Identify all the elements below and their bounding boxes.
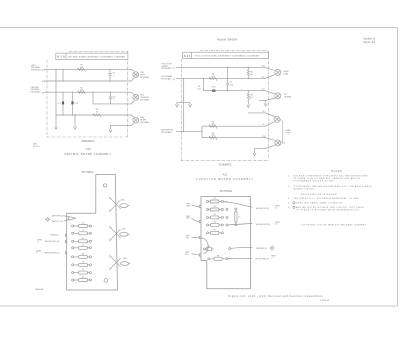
capacitor C2 electrolytic [57, 92, 64, 115]
resistor R8 [209, 133, 217, 140]
note ref text [33, 144, 40, 148]
exit wire 2 [228, 224, 252, 225]
wire to lamp F3 [249, 112, 266, 114]
svg-text:1.: 1. [288, 175, 291, 177]
wire vertical x93 [92, 92, 94, 104]
tab wire w2 [192, 218, 200, 221]
svg-text:A10: A10 [57, 55, 65, 59]
lone eyelet e3 [226, 224, 228, 226]
svg-text:(11): (11) [262, 89, 265, 91]
svg-text:WHT/VIO/GRY (7): WHT/VIO/GRY (7) [255, 259, 269, 261]
exit wire 1 [223, 202, 252, 208]
tab wire w3 [192, 236, 200, 238]
wire f2 [176, 77, 265, 79]
edge tab t1 [199, 205, 201, 207]
resistor row p2 [72, 230, 92, 235]
svg-text:COPYRIGHT 1971 BY HEWLETT-PACK: COPYRIGHT 1971 BY HEWLETT-PACKARD COMPAN… [301, 223, 367, 226]
svg-text:(2): (2) [173, 68, 176, 70]
input label CENTER DECIMAL [31, 87, 45, 95]
resistor row p1 [72, 223, 92, 228]
loop vertical [201, 126, 203, 138]
lamp assembly DS3 [109, 255, 130, 269]
svg-text:C1: C1 [238, 216, 240, 218]
resistor row p5 [72, 254, 92, 259]
svg-text:FROM A12: FROM A12 [31, 90, 42, 93]
page top border [0, 27, 398, 29]
resistor row p7 [72, 269, 92, 274]
term 16 stack [36, 250, 41, 254]
wire w6 [111, 124, 132, 126]
svg-text:Figure 4-6. (A10 - A11) Decim: Figure 4-6. (A10 - A11) Decimal and Func… [229, 294, 324, 298]
svg-text:5.: 5. [288, 207, 291, 209]
bus wire left [55, 69, 57, 122]
term 15 stack [37, 240, 42, 244]
svg-text:DS2: DS2 [122, 229, 126, 231]
svg-text:DS3: DS3 [123, 258, 127, 260]
capacitor C1 vertical [235, 208, 241, 226]
lone eyelet e1 [226, 209, 228, 211]
edge tab 3 [65, 252, 67, 254]
page bottom border [0, 305, 398, 307]
svg-text:WHT/VIO (4): WHT/VIO (4) [52, 221, 63, 223]
ground below lamp F2 [264, 100, 267, 106]
svg-text:(TERM 15): (TERM 15) [50, 235, 59, 237]
svg-text:FUNCTION BOARD ASSEMBLY SCHEMA: FUNCTION BOARD ASSEMBLY SCHEMATIC DIAGRA… [195, 55, 259, 58]
svg-text:WHT/BLK/VIO (4): WHT/BLK/VIO (4) [256, 208, 270, 210]
junction dots A11 [183, 67, 249, 132]
svg-text:4-15/4-16: 4-15/4-16 [320, 300, 330, 302]
tab label 1 [186, 204, 191, 208]
lamp F2 [259, 91, 292, 101]
page right border [397, 28, 399, 307]
wire f3 [203, 90, 265, 92]
svg-text:(4): (4) [42, 93, 45, 95]
resistor R2 [78, 87, 86, 94]
svg-text:WHT/: WHT/ [185, 252, 190, 254]
exit wire 4 [228, 258, 252, 260]
lamp F4 return wire [255, 148, 266, 153]
wire w3 [44, 91, 132, 93]
edge tab 2 [65, 240, 67, 242]
svg-text:(13): (13) [262, 66, 265, 68]
capacitor C3 electrolytic [71, 92, 78, 115]
lamp assembly DS2 [109, 227, 129, 241]
connector flag [64, 216, 76, 221]
lamp DS2 [132, 92, 150, 104]
wire vertical x63 [62, 69, 64, 81]
internal bus wire [183, 78, 185, 131]
term label 4 [271, 256, 276, 260]
lamp F3 [266, 113, 280, 126]
svg-text:R7: R7 [214, 230, 216, 232]
tab label 4 [185, 252, 190, 256]
A11 board outline [201, 197, 250, 289]
lamp test bracket [280, 120, 292, 143]
svg-text:R8: R8 [217, 255, 219, 257]
svg-text:R6: R6 [214, 222, 216, 224]
resistor row q3 [207, 214, 224, 219]
tab label 3 [186, 236, 191, 240]
A10 board outline [67, 175, 118, 291]
bottom row resistor [208, 255, 228, 260]
svg-text:DECIMAL BOARD ASSEMBLY: DECIMAL BOARD ASSEMBLY [65, 152, 112, 156]
svg-text:R3: R3 [214, 206, 216, 208]
svg-text:BOARD LISTED: BOARD LISTED [294, 188, 315, 191]
svg-text:FROM A1A: FROM A1A [161, 131, 172, 134]
mounting hole top [103, 184, 106, 187]
resistor R3 [93, 109, 101, 117]
pin labels A11 [262, 66, 266, 138]
resistor row p8 [72, 277, 92, 282]
svg-text:C4: C4 [82, 269, 84, 271]
resistor row q4 [207, 222, 224, 227]
A10 enclosure dashed border [47, 51, 128, 137]
term label 2 [275, 222, 280, 226]
resistor row q1 [207, 198, 229, 203]
wire w2 [44, 80, 132, 82]
resistor R6 vertical [247, 91, 254, 103]
svg-text:NOTES: NOTES [331, 170, 342, 173]
svg-text:TEST: TEST [285, 132, 291, 134]
svg-text:WHT/: WHT/ [186, 216, 191, 218]
resistor row p3 [72, 238, 92, 243]
A11 enclosure dashed border [181, 51, 269, 161]
input label NO SIGNAL [161, 75, 175, 81]
resistor R5 label [197, 86, 201, 90]
svg-text:R5: R5 [214, 214, 216, 216]
svg-text:R1: R1 [82, 223, 84, 225]
tab arc inside board [202, 238, 209, 254]
svg-text:TERM: TERM [275, 206, 280, 208]
svg-text:TO PLACE IN A BOARD WITH REVER: TO PLACE IN A BOARD WITH REVERSE ALIGN [296, 209, 359, 212]
resistor R1 [78, 65, 86, 72]
junction dots A10 [55, 69, 111, 126]
svg-text:(10): (10) [263, 136, 266, 138]
lamp DS3 [132, 115, 150, 125]
svg-text:LOAD: LOAD [283, 73, 289, 76]
ground below lamp F4 [253, 153, 256, 156]
A10 title box [56, 53, 128, 59]
lamp F1 [265, 67, 289, 78]
edge tab t4 [199, 254, 201, 256]
svg-text:WHT/GRN (2): WHT/GRN (2) [52, 216, 64, 218]
svg-text:DENOTES PANEL LAMP LOCATION: DENOTES PANEL LAMP LOCATION [296, 201, 343, 204]
A11 title box [183, 52, 269, 58]
capacitor C4 [109, 92, 116, 104]
svg-text:5808-B-2B: 5808-B-2B [35, 289, 44, 291]
svg-text:WHT/BLK/GRN (5): WHT/BLK/GRN (5) [44, 253, 60, 255]
note 5 glyph [293, 206, 295, 208]
mounting hole bottom [104, 279, 108, 283]
loop top branch [202, 125, 266, 127]
svg-text:WHT/: WHT/ [186, 236, 191, 238]
resistor R3 vertical [247, 67, 254, 78]
input label FUNCTION LAMP [161, 64, 175, 70]
svg-text:DECIMAL BOARD ASSEMBLY SCHEMAT: DECIMAL BOARD ASSEMBLY SCHEMATIC DIAGRAM [68, 55, 125, 58]
tab label 2 [186, 216, 191, 220]
svg-text:2.: 2. [288, 186, 291, 188]
edge tab t2 [199, 220, 201, 222]
lamp glyph right [270, 245, 275, 250]
note 4 glyph [293, 202, 295, 204]
svg-text:TERM: TERM [275, 222, 280, 224]
lamp glyph left [45, 217, 50, 222]
svg-text:A10: A10 [86, 147, 91, 151]
svg-text:WHT/: WHT/ [186, 204, 191, 206]
svg-text:17: 17 [271, 258, 273, 260]
svg-text:NOTE 3: NOTE 3 [33, 146, 40, 148]
svg-text:15: 15 [275, 207, 277, 209]
svg-text:SIGNAL: SIGNAL [284, 95, 292, 98]
wire w4 [93, 103, 132, 105]
svg-text:TERM: TERM [271, 256, 276, 258]
capacitor C1 [108, 69, 116, 81]
resistor row p6 [72, 262, 92, 267]
svg-text:Model 5808A: Model 5808A [217, 37, 237, 41]
svg-text:SCHEMATIC: SCHEMATIC [81, 140, 95, 143]
resistor row q2 [207, 206, 224, 211]
input label LEFT DECIMAL [31, 65, 45, 72]
lamp test loop input wire [176, 130, 202, 132]
svg-text:C1: C1 [82, 230, 84, 232]
svg-text:DECIMAL: DECIMAL [140, 76, 150, 79]
wire f1 [176, 66, 265, 68]
svg-text:C3: C3 [82, 262, 84, 264]
lamp F4 [266, 138, 286, 149]
svg-text:FUNCTION BOARD ASSEMBLY: FUNCTION BOARD ASSEMBLY [196, 177, 253, 181]
svg-text:PICTORIAL: PICTORIAL [81, 171, 94, 174]
svg-text:C2 2: C2 2 [57, 103, 61, 105]
svg-text:16: 16 [275, 224, 277, 226]
lamp assembly DS1 [109, 197, 129, 211]
resistor R7 [209, 121, 217, 128]
svg-text:15: 15 [37, 241, 39, 243]
svg-text:DECIMAL: DECIMAL [140, 98, 150, 101]
svg-text:DS1: DS1 [121, 199, 125, 201]
resistor row p4 [72, 244, 92, 249]
svg-text:A11: A11 [223, 172, 228, 176]
svg-text:FROM A12: FROM A12 [161, 77, 172, 80]
exit wire 3 [231, 246, 253, 249]
tab wire w4 [192, 254, 200, 255]
ground at bus [55, 123, 58, 130]
svg-text:R4: R4 [82, 277, 84, 279]
svg-text:WHT/BLK/GRN (5): WHT/BLK/GRN (5) [256, 224, 271, 226]
svg-text:WHT/BRN (8): WHT/BRN (8) [256, 248, 267, 250]
svg-text:FROM A12: FROM A12 [161, 67, 172, 70]
ground stub x75 [74, 115, 77, 129]
wire w1 [44, 68, 132, 70]
resistor R4 [209, 74, 217, 81]
loop bottom branch [202, 137, 266, 139]
edge tab t3 [199, 236, 201, 238]
svg-text:DECIMAL: DECIMAL [140, 121, 150, 124]
diode row [204, 246, 214, 251]
svg-text:PICOFARADS UNLESS NOTED: PICOFARADS UNLESS NOTED [294, 179, 335, 182]
lone eyelet e2 [226, 216, 228, 218]
svg-text:4.: 4. [288, 202, 291, 204]
wire w5 [56, 114, 132, 116]
svg-text:3.: 3. [288, 198, 291, 200]
diode CR1 [212, 87, 217, 92]
input label A/B SWITCH [161, 129, 173, 134]
svg-text:C3 2: C3 2 [74, 103, 78, 105]
term label 1 [275, 206, 280, 210]
svg-text:REGISTRATION IS SHOWN: REGISTRATION IS SHOWN [301, 193, 337, 196]
svg-text:(12): (12) [42, 70, 46, 72]
svg-text:R4: R4 [214, 198, 216, 200]
tab wire w1 [192, 205, 200, 206]
ground below R6 [247, 103, 250, 107]
svg-text:YEL: YEL [186, 238, 189, 240]
wire vertical x203 [202, 78, 204, 90]
svg-text:CR1: CR1 [207, 246, 210, 248]
lamp DS1 [132, 69, 150, 81]
svg-text:A11: A11 [184, 54, 191, 58]
svg-text:Figure 4-5: Figure 4-5 [363, 40, 375, 44]
svg-text:FROM A12: FROM A12 [31, 68, 42, 71]
svg-text:C2: C2 [82, 244, 84, 246]
svg-text:SCHEMATIC: SCHEMATIC [219, 164, 233, 167]
svg-text:INDICATES D.C. VOLTAGES MEASUR: INDICATES D.C. VOLTAGES MEASURED TO GND [294, 197, 360, 200]
internal ground pair [176, 102, 192, 107]
capacitor C1 [226, 67, 234, 90]
edge tab 1 [65, 234, 67, 236]
resistor row q5 [207, 230, 224, 235]
ground at w6 [109, 125, 112, 132]
svg-text:(9): (9) [173, 79, 176, 81]
exit eyelet 3 [229, 248, 231, 250]
svg-text:PICTORIAL: PICTORIAL [220, 190, 233, 193]
svg-text:R3: R3 [82, 254, 84, 256]
svg-text:R2: R2 [82, 238, 84, 240]
svg-text:16: 16 [36, 252, 38, 254]
svg-text:WHT/BLK/VIO (4): WHT/BLK/VIO (4) [45, 241, 60, 243]
